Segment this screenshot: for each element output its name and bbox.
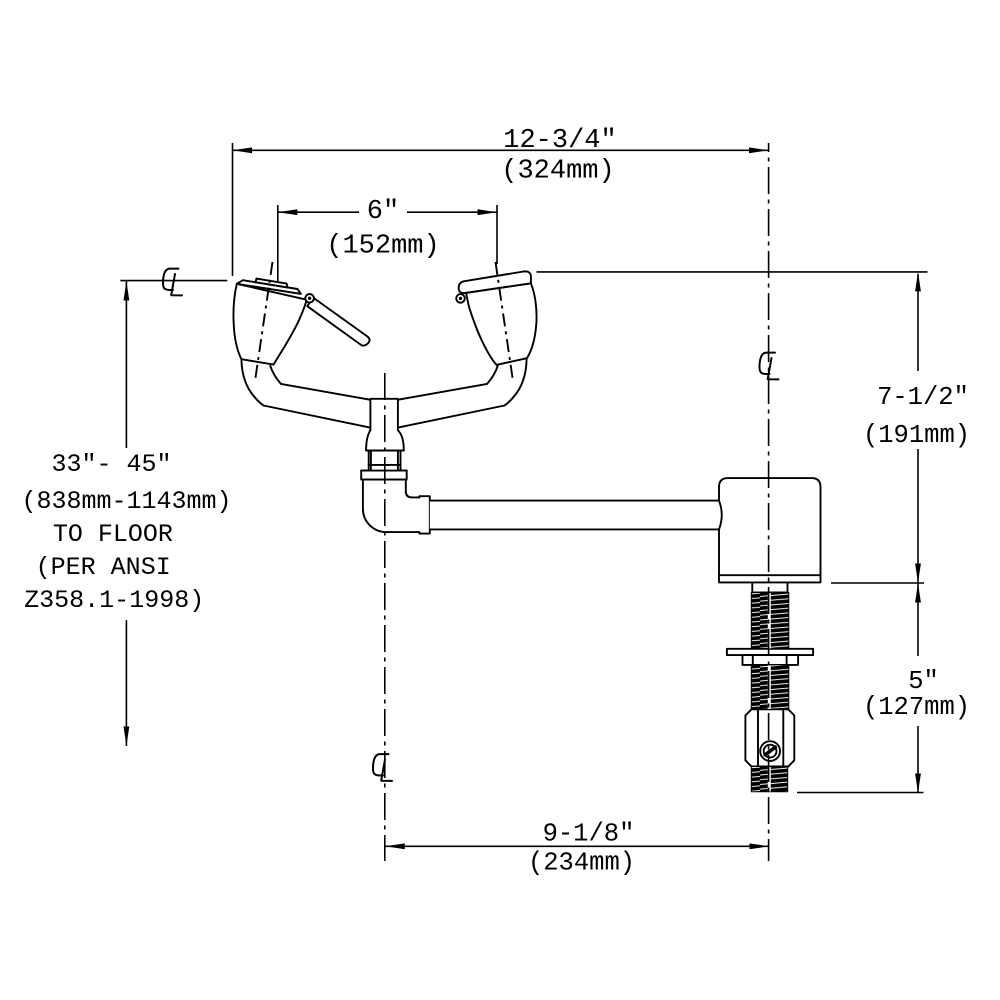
svg-text:7-1/2": 7-1/2" [877,383,969,412]
svg-text:12-3/4": 12-3/4" [503,126,616,156]
svg-text:9-1/8": 9-1/8" [543,820,635,849]
svg-text:(838mm-1143mm): (838mm-1143mm) [21,487,231,516]
svg-text:5": 5" [908,667,939,696]
svg-text:(234mm): (234mm) [528,849,635,878]
svg-text:(152mm): (152mm) [326,232,439,262]
svg-text:(324mm): (324mm) [501,157,614,187]
svg-text:(191mm): (191mm) [863,421,970,450]
svg-text:(127mm): (127mm) [863,693,970,722]
svg-text:Z358.1-1998): Z358.1-1998) [24,586,204,615]
svg-text:6": 6" [367,197,399,227]
svg-text:(PER ANSI: (PER ANSI [36,553,171,582]
svg-text:33"- 45": 33"- 45" [51,450,171,479]
svg-text:TO FLOOR: TO FLOOR [53,520,173,549]
